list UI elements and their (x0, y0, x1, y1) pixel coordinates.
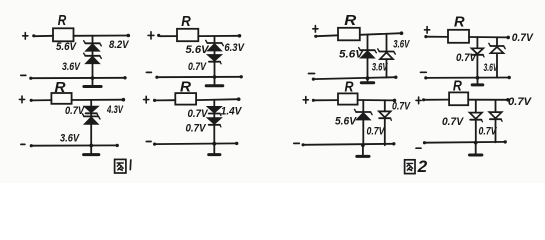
label 3.6V (C) (60, 133, 80, 145)
ground (C) (84, 146, 99, 155)
label 8.2V output (A) (109, 39, 130, 51)
wire left branch (G) (362, 100, 364, 111)
ground (G) (357, 145, 369, 156)
wire left branch (F) (476, 37, 478, 48)
diode 0.7V (B) (208, 55, 221, 64)
svg-text:R: R (345, 79, 354, 96)
svg-text:R: R (454, 13, 465, 30)
wire resistor to output node (A) (74, 34, 131, 38)
wire bottom rail (B) (157, 75, 243, 79)
zener diode 3.6V (E) (378, 49, 396, 59)
node - terminal (D) (146, 142, 156, 146)
label 0.7V (C) (65, 105, 85, 117)
label 0.7V upper (D) (188, 108, 209, 120)
wire right branch lower (F) (496, 53, 498, 77)
wire + input to resistor R (D) (156, 99, 175, 101)
wire branch from top rail (B) (214, 36, 216, 42)
wire between diodes (B) (214, 51, 216, 55)
label 5.6V (A) (56, 41, 77, 53)
node - terminal (H) (416, 141, 426, 148)
svg-text:6.3V: 6.3V (224, 42, 245, 54)
wire left branch (E) (367, 35, 369, 50)
resistor R (C) (51, 79, 71, 104)
caption Figure 2 (tu 2) (405, 158, 428, 176)
resistor R (A) (53, 12, 74, 41)
label 0.7V left (H) (442, 116, 464, 128)
node + terminal (circuit C positive input) (19, 96, 32, 103)
svg-text:0.7V: 0.7V (456, 52, 477, 64)
node - terminal (F) (421, 72, 428, 79)
label 3.6V (A) (62, 61, 81, 73)
label 5.6V (E) (339, 49, 364, 61)
wire bottom rail (G) (303, 142, 395, 147)
wire right branch (F) (496, 37, 498, 45)
wire diode to bottom rail (D) (213, 125, 215, 144)
wire diode to bottom rail (A) (92, 63, 94, 78)
node + terminal (circuit B positive input) (148, 32, 160, 39)
wire bottom rail (C) (31, 144, 119, 148)
wire between diodes (A) (92, 51, 94, 55)
zener diode 5.6V (G) (355, 109, 373, 119)
wire resistor to output node (B) (198, 34, 241, 38)
wire right branch (H) (495, 100, 497, 112)
wire right branch lower (H) (495, 120, 497, 143)
svg-text:2: 2 (417, 158, 428, 176)
node - terminal (C) (21, 144, 33, 147)
wire resistor to output node (E) (360, 31, 404, 35)
svg-text:R: R (344, 12, 356, 29)
zener diode 3.6V (C) (82, 114, 100, 124)
svg-text:R: R (180, 79, 191, 96)
svg-text:0.7V: 0.7V (188, 108, 209, 120)
svg-text:3.6V: 3.6V (393, 38, 410, 50)
diode 0.7V lower (D) (208, 118, 221, 127)
svg-text:0.7V: 0.7V (392, 101, 411, 113)
resistor R (D) (175, 79, 196, 105)
wire bottom rail (D) (155, 142, 239, 146)
label 3.6V (E) (372, 62, 388, 74)
diode 0.7V (F) (472, 48, 485, 57)
wire bottom rail (F) (426, 76, 511, 80)
wire left branch lower (F) (476, 55, 478, 78)
label 0.7V lower (D) (186, 123, 207, 135)
ground (B) (206, 77, 223, 86)
label 0.7V (G) (367, 126, 386, 138)
wire resistor to output node (D) (196, 97, 240, 101)
diode 0.7V upper (D) (208, 107, 221, 116)
svg-text:5.6V: 5.6V (339, 49, 364, 61)
label 1.4V output (D) (221, 106, 243, 118)
wire bottom rail (A) (31, 76, 127, 80)
node - terminal (G) (294, 143, 305, 146)
label 3.6V output (E) (393, 38, 410, 50)
resistor R (E) (338, 12, 360, 40)
svg-text:R: R (181, 13, 191, 30)
wire bottom rail (E) (313, 76, 397, 81)
wire bottom rail (H) (425, 140, 507, 144)
wire right branch (G) (384, 100, 386, 111)
diode 0.7V (C) (85, 107, 98, 116)
svg-text:R: R (58, 12, 67, 29)
label 0.7V output (G) (392, 101, 411, 113)
label 3.6V (F) (484, 62, 499, 74)
wire left branch (H) (475, 100, 477, 112)
wire + input to resistor R (A) (35, 35, 53, 37)
label 6.3V output (B) (224, 42, 245, 54)
wire right branch lower (G) (384, 119, 386, 146)
label 0.7V (B) (188, 61, 207, 73)
svg-text:5.6V: 5.6V (56, 41, 77, 53)
svg-text:0.7V: 0.7V (65, 105, 85, 117)
wire resistor to output node (G) (358, 99, 397, 103)
svg-text:0.7V: 0.7V (442, 116, 464, 128)
wire + input to resistor R (C) (33, 99, 52, 101)
wire left branch lower (E) (367, 58, 369, 79)
resistor R (B) (177, 13, 198, 41)
diode 0.7V left (H) (470, 113, 483, 122)
wire right branch lower (E) (386, 59, 388, 77)
wire between diodes (D) (213, 114, 215, 118)
wire branch from top rail (C) (90, 100, 92, 107)
svg-text:8.2V: 8.2V (109, 39, 130, 51)
wire + input to resistor R (G) (315, 99, 338, 101)
wire resistor to output node (H) (468, 98, 510, 102)
ground (A) (84, 78, 101, 87)
label 0.7V right (H) (479, 126, 498, 138)
ground (D) (209, 144, 220, 155)
diode 0.7V (G) (379, 111, 392, 120)
wire between diodes (C) (90, 114, 92, 116)
node + terminal (circuit D positive input) (144, 96, 157, 103)
wire + input to resistor R (E) (317, 34, 338, 37)
node - terminal (A) (21, 75, 33, 79)
caption Figure 1 (tu 1) (115, 159, 131, 173)
label 5.6V (B) (186, 44, 210, 56)
node + terminal (circuit H positive input) (416, 97, 425, 104)
svg-text:3.6V: 3.6V (62, 61, 81, 73)
wire left branch lower (H) (475, 120, 477, 143)
resistor R (H) (449, 78, 468, 106)
svg-text:0.7V: 0.7V (508, 96, 532, 108)
wire branch from top rail (D) (213, 100, 215, 107)
node - terminal (B) (146, 72, 158, 78)
wire diode to bottom rail (C) (90, 124, 92, 145)
wire branch from top rail (A) (92, 36, 94, 43)
resistor R (F) (448, 13, 469, 42)
node + terminal (circuit G positive input) (303, 97, 315, 104)
wire right branch (E) (386, 34, 388, 51)
svg-text:0.7V: 0.7V (512, 32, 534, 44)
svg-text:0.7V: 0.7V (188, 61, 207, 73)
svg-text:0.7V: 0.7V (367, 126, 386, 138)
svg-text:4.3V: 4.3V (106, 104, 124, 116)
wire left branch lower (G) (362, 120, 364, 146)
wire + input to resistor R (B) (160, 35, 177, 37)
label 4.3V output (C) (106, 104, 124, 116)
wire resistor to output node (F) (469, 36, 510, 40)
diode 0.7V right (H) (489, 112, 502, 121)
node + terminal (circuit E positive input) (313, 26, 318, 38)
wire diode to bottom rail (B) (214, 62, 216, 77)
zener diode 5.6V (A) (84, 41, 102, 51)
wire + input to resistor R (F) (427, 36, 448, 38)
wire + input to resistor R (H) (425, 99, 449, 101)
ground (F) (472, 78, 483, 85)
node + terminal (circuit A positive input) (23, 33, 36, 40)
zener diode 5.6V (E) (359, 48, 377, 58)
node + terminal (circuit F positive input) (424, 27, 429, 39)
svg-text:0.7V: 0.7V (186, 123, 207, 135)
svg-text:5.6V: 5.6V (335, 116, 357, 128)
svg-text:R: R (453, 78, 462, 95)
svg-text:1.4V: 1.4V (221, 106, 243, 118)
svg-text:R: R (55, 79, 66, 96)
label 5.6V (G) (335, 116, 357, 128)
zener diode 3.6V (F) (489, 43, 505, 53)
node - terminal (E) (309, 74, 316, 81)
resistor R (G) (338, 79, 358, 105)
zener diode 5.6V (B) (206, 40, 224, 50)
svg-text:3.6V: 3.6V (60, 133, 80, 145)
label 0.7V (F) (456, 52, 477, 64)
zener diode 3.6V (A) (84, 53, 102, 63)
ground (H) (470, 143, 482, 155)
label 0.7V output (F) (512, 32, 534, 44)
ground (E) (361, 78, 373, 83)
label 0.7V output (H) (508, 96, 532, 108)
wire resistor to output node (C) (72, 98, 126, 102)
